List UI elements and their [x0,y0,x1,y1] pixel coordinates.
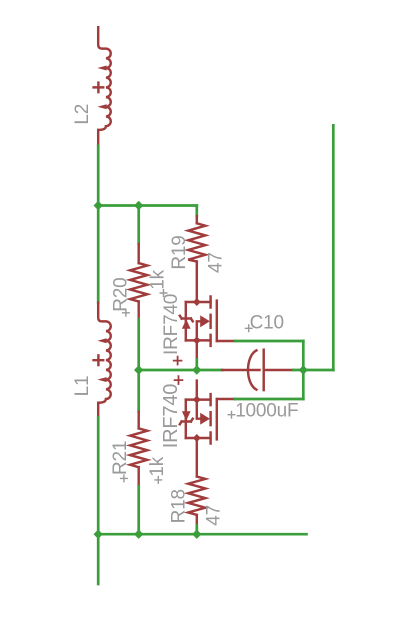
junction rail right [192,530,201,539]
svg-text:IRF740: IRF740 [161,294,182,355]
drain pin junction diamond [193,298,201,306]
svg-text:1000uF: 1000uF [235,400,298,421]
drain lead [186,437,211,439]
source pin [196,381,198,400]
resistor R19 [188,216,205,302]
wire R19 top stub [195,206,198,217]
wire upper source stub green [195,359,198,370]
junction mid (half-bridge output) [192,365,201,374]
origin cross R21 [120,474,128,482]
junction node top-left [94,201,103,210]
svg-text:IRF740: IRF740 [160,384,182,448]
junction mid-left [134,365,143,374]
wire L1 bottom to rail [97,417,100,534]
body diode branch line [185,302,187,340]
wire R20 top stub [137,206,140,245]
resistor R21 [130,412,147,487]
gate lead [217,398,235,400]
gate lead [217,340,236,342]
wire R18 bottom stub [195,526,198,535]
wire R21 bottom stub [137,486,140,534]
svg-text:47: 47 [206,252,227,273]
substrate arrow [200,315,210,327]
source lead [186,398,211,400]
junction rail mid [134,530,143,539]
substrate arrow [200,413,210,425]
svg-text:R20: R20 [110,278,131,312]
wire below rail stub [97,534,100,584]
origin cross C10 [245,324,253,332]
straight plate [262,350,264,390]
right pin [265,369,293,371]
drain pin junction diamond [193,434,201,442]
svg-text:R18: R18 [169,489,190,523]
transistor Q2 IRF740 lower [180,381,235,444]
wire box bottom [235,398,303,401]
junction rail left [94,530,103,539]
wire cap right green [293,369,303,372]
gate bar [216,399,218,439]
wire right riser vertical [332,125,335,370]
wire mid to right riser [303,369,333,372]
bulk connection [197,321,201,340]
svg-text:1k: 1k [147,456,168,476]
source pin junction diamond [193,396,201,404]
origin cross 1k (R20) [160,289,168,297]
source pin junction diamond [193,336,201,344]
svg-text:47: 47 [203,505,224,526]
zener body diode [180,419,193,425]
wire R21 top stub [137,370,140,412]
left pin [222,369,259,371]
drain lead [186,301,211,303]
svg-text:L2: L2 [72,104,93,125]
svg-text:L1: L1 [72,376,93,397]
source lead [186,339,211,341]
inductor L2 [94,27,111,146]
transistor Q1 IRF740 upper [180,297,236,360]
gate bar [216,301,218,341]
wire R20 bottom stub [137,319,140,370]
wire bottom rail [98,533,306,536]
svg-text:R21: R21 [110,441,131,475]
origin cross R20 [122,309,130,317]
junction cap right node [299,365,308,374]
channel segments [209,297,211,346]
body diode branch line [185,400,187,438]
junction node top-mid [134,201,143,210]
source pin [196,340,198,359]
wire box right vertical [302,341,305,399]
origin cross lower red [174,375,184,385]
inductor L1 [94,303,111,418]
svg-text:R19: R19 [169,235,190,269]
wire mid horizontal [139,369,222,372]
channel segments [209,394,211,443]
zener body diode [180,316,193,322]
resistor R18 [188,438,205,526]
curved plate [248,350,256,389]
svg-text:C10: C10 [250,312,284,333]
origin cross upper red [173,356,183,366]
origin cross 1000uF [228,411,236,419]
wire left column upper (L2 bottom to L1 top) [97,146,100,303]
svg-text:1k: 1k [147,269,168,289]
resistor R20 [130,244,147,319]
capacitor C10 [222,350,293,390]
wire top node horizontal [98,204,197,207]
origin cross 1k (R21) [154,476,162,484]
wire box top [235,340,303,343]
bulk connection [197,400,201,419]
